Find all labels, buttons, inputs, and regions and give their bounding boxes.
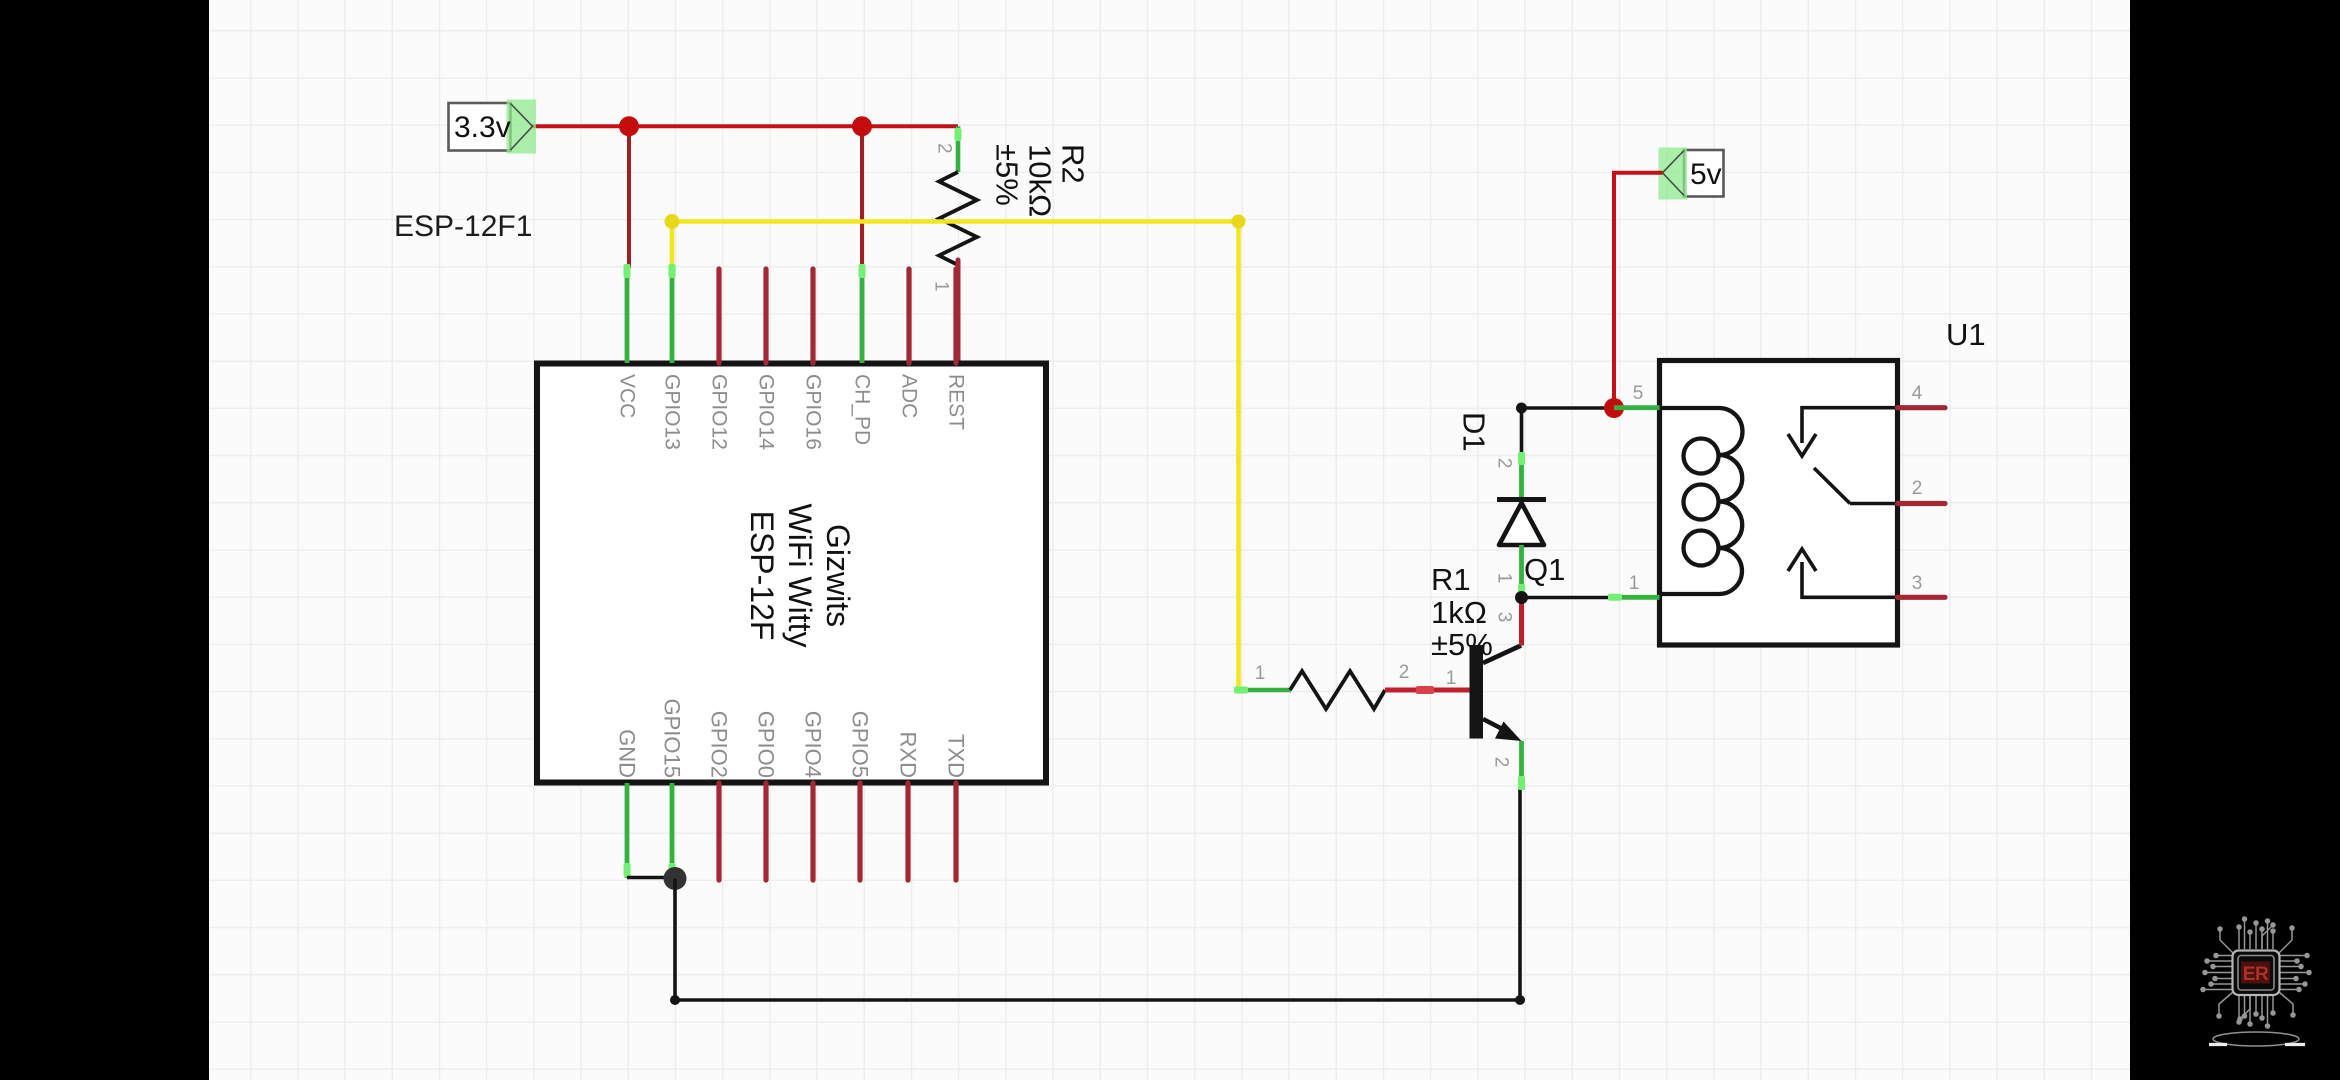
wire: D1 cathode to relay pin5 (black) [1516, 403, 1614, 453]
svg-text:±5%: ±5% [990, 144, 1025, 206]
svg-text:3.3v: 3.3v [454, 111, 511, 144]
pin ADC (top) [898, 269, 921, 418]
pin 2 label of D1 [1494, 458, 1515, 469]
pin RXD (bottom) [896, 732, 921, 880]
yellow corner dot at right bend [1232, 215, 1246, 229]
IC ESP-12F (Gizwits WiFi Witty) body [537, 364, 1046, 783]
svg-text:GPIO4: GPIO4 [801, 711, 826, 778]
junction: 5v / D1 / relay pin5 [1604, 398, 1624, 418]
svg-text:4: 4 [1912, 383, 1923, 404]
svg-text:R2: R2 [1056, 144, 1091, 184]
relay coil [1660, 408, 1743, 594]
svg-text:1: 1 [931, 281, 952, 292]
junction: GND / GPIO15 node [664, 867, 687, 890]
svg-text:GPIO5: GPIO5 [848, 711, 873, 778]
svg-text:2: 2 [934, 143, 955, 154]
value label R2 10kOhm 5% (rotated) [990, 144, 1091, 217]
pin VCC (top, connected) [616, 264, 639, 418]
svg-text:GPIO12: GPIO12 [708, 374, 731, 450]
svg-text:ESP-12F: ESP-12F [744, 511, 780, 641]
pin GPIO0 (bottom) [754, 711, 779, 880]
ER logo (channel watermark) [2201, 917, 2311, 1028]
designator label D1 (rotated) [1457, 412, 1492, 452]
pin 1 label of R1 [1255, 663, 1266, 684]
svg-text:U1: U1 [1946, 317, 1986, 352]
svg-text:1: 1 [1494, 573, 1515, 584]
svg-text:D1: D1 [1457, 412, 1492, 452]
pin CH_PD (top, connected) [851, 264, 874, 445]
junction: 3.3v rail at VCC [619, 116, 639, 136]
designator label U1 [1946, 317, 1986, 352]
svg-text:1: 1 [1629, 573, 1640, 594]
pin 1 label of D1 [1494, 573, 1515, 584]
wire: GND jog to junction (black) [627, 876, 675, 880]
svg-text:GND: GND [615, 729, 640, 778]
node: D1 anode / Q1 collector junction [1515, 591, 1528, 604]
pin 1 label of R2 [931, 281, 952, 292]
svg-text:ADC: ADC [898, 374, 921, 418]
wire: 3.3v rail horizontal (red) [531, 124, 958, 128]
svg-text:5v: 5v [1690, 158, 1722, 191]
pin 2 label of R1 [1399, 662, 1410, 683]
pin REST (top) [945, 269, 968, 430]
svg-text:TXD: TXD [944, 734, 969, 778]
pin GND (bottom, connected) [615, 729, 640, 878]
svg-text:GPIO2: GPIO2 [707, 711, 732, 778]
wire: VCC drop vertical (red) [627, 126, 631, 268]
pin GPIO4 (bottom) [801, 711, 826, 880]
pin GPIO13 (top, connected) [661, 264, 684, 450]
pin 2 label of R2 [934, 143, 955, 154]
pin GPIO5 (bottom) [848, 711, 873, 880]
relay U1 body [1660, 361, 1898, 646]
svg-text:±5%: ±5% [1431, 627, 1493, 662]
value label R1 1kOhm 5% [1431, 562, 1493, 662]
svg-text:2: 2 [1494, 458, 1515, 469]
svg-text:2: 2 [1491, 757, 1512, 768]
svg-text:GPIO16: GPIO16 [802, 374, 825, 450]
svg-text:R1: R1 [1431, 562, 1471, 597]
resistor R2 (vertical) [939, 126, 977, 363]
svg-text:1kΩ: 1kΩ [1431, 595, 1487, 630]
svg-text:1: 1 [1446, 668, 1457, 689]
pin TXD (bottom) [944, 734, 969, 880]
svg-text:GPIO14: GPIO14 [755, 374, 778, 450]
power flag 5v [1659, 148, 1724, 200]
pin GPIO14 (top) [755, 269, 778, 450]
svg-text:10kΩ: 10kΩ [1023, 144, 1058, 217]
wire: CH_PD drop vertical (red) [860, 126, 864, 268]
svg-text:3: 3 [1494, 612, 1515, 623]
pin GPIO12 (top) [708, 269, 731, 450]
svg-text:1: 1 [1255, 663, 1266, 684]
svg-text:2: 2 [1912, 478, 1923, 499]
logo base ellipse [2209, 1032, 2305, 1046]
wire: junction to relay pin1 (black) [1522, 596, 1609, 600]
relay pin 2 stub [1898, 478, 1946, 504]
svg-text:3: 3 [1912, 573, 1923, 594]
relay switch contacts [1788, 408, 1898, 598]
svg-text:GPIO0: GPIO0 [754, 711, 779, 778]
pin 2 label of Q1 (emitter) [1491, 757, 1512, 768]
svg-text:ER: ER [2243, 964, 2269, 985]
wire: yellow GPIO13 to R1 [672, 222, 1239, 691]
relay pin 1 stub [1608, 573, 1660, 601]
svg-text:RXD: RXD [896, 732, 921, 778]
svg-text:5: 5 [1633, 383, 1644, 404]
svg-text:CH_PD: CH_PD [851, 374, 874, 445]
pin 1 label of Q1 (base) [1446, 668, 1457, 689]
power flag 3.3v [449, 100, 537, 154]
svg-text:VCC: VCC [616, 374, 639, 418]
diode D1 [1497, 452, 1546, 597]
svg-text:GPIO13: GPIO13 [661, 374, 684, 450]
pin GPIO15 (bottom, connected) [660, 699, 685, 878]
svg-text:GPIO15: GPIO15 [660, 699, 685, 778]
svg-text:REST: REST [945, 374, 968, 430]
wire: 5v to relay coil (red) [1614, 173, 1663, 408]
resistor R1 (horizontal) [1234, 671, 1470, 709]
designator label Q1 [1524, 552, 1565, 587]
svg-text:ESP-12F1: ESP-12F1 [394, 210, 532, 243]
wire: ground return (black) [670, 789, 1525, 1005]
pin GPIO2 (bottom) [707, 711, 732, 880]
junction: 3.3v rail at CH_PD [852, 116, 872, 136]
pin GPIO16 (top) [802, 269, 825, 450]
label ESP-12F1 [394, 210, 532, 243]
relay pin 3 stub [1898, 573, 1946, 597]
pin 3 label of Q1 (collector) [1494, 612, 1515, 623]
svg-text:Gizwits: Gizwits [820, 524, 856, 627]
relay pin 5 stub [1614, 383, 1660, 408]
svg-text:WiFi Witty: WiFi Witty [782, 504, 818, 648]
svg-text:Q1: Q1 [1524, 552, 1565, 587]
relay pin 4 stub [1898, 383, 1946, 408]
yellow corner dot at GPIO13 [665, 214, 680, 229]
transistor Q1 (NPN) [1470, 598, 1526, 790]
svg-text:2: 2 [1399, 662, 1410, 683]
